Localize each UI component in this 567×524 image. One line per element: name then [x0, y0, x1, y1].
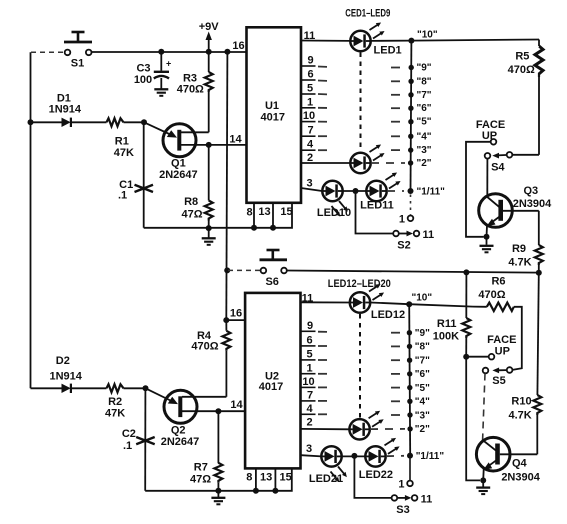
- wire +9V rail down to bottom half: [226, 52, 227, 320]
- svg-text:Q3: Q3: [523, 185, 538, 197]
- svg-text:"6": "6": [415, 369, 430, 380]
- svg-text:1: 1: [307, 96, 313, 108]
- svg-text:"1/11": "1/11": [416, 451, 445, 462]
- svg-text:LED22: LED22: [359, 469, 393, 481]
- wire LED21 to LED22: [342, 455, 365, 457]
- svg-text:10: 10: [302, 376, 314, 388]
- svg-text:9: 9: [307, 55, 313, 67]
- wire pin 11 to LED1: [301, 40, 350, 42]
- svg-text:+9V: +9V: [199, 21, 220, 33]
- ground under C3: [154, 89, 168, 96]
- pin 13 line U1: [272, 203, 274, 228]
- svg-text:S6: S6: [265, 276, 278, 288]
- svg-text:"3": "3": [415, 410, 430, 421]
- svg-text:R10: R10: [511, 395, 531, 407]
- node junction pin13 U2: [272, 488, 278, 494]
- LED22 emission arrows: [383, 436, 397, 447]
- LED LED9 (chain bottom): [350, 153, 370, 173]
- svg-text:470Ω: 470Ω: [478, 289, 505, 301]
- switch S2: [393, 231, 399, 237]
- svg-text:"10": "10": [417, 30, 438, 41]
- node junction R7 ground: [215, 488, 221, 494]
- svg-text:4.7K: 4.7K: [508, 409, 531, 421]
- IC U1 4017: [247, 27, 302, 203]
- svg-text:4.7K: 4.7K: [508, 257, 531, 269]
- wire dashed feed to S6: [228, 269, 260, 271]
- wire node 10 to R5: [411, 40, 539, 41]
- contact FACE UP bottom: [489, 354, 495, 360]
- node junction pin13: [270, 225, 276, 231]
- pushbutton S6: [260, 250, 288, 260]
- svg-text:C2: C2: [122, 428, 136, 440]
- pin 13 line U2: [274, 468, 276, 490]
- node 10 bottom: [406, 301, 412, 307]
- wire pin 3 to LED10: [301, 188, 322, 191]
- node junction C3: [158, 49, 164, 55]
- svg-text:R9: R9: [512, 243, 526, 255]
- LED LED1: [350, 31, 370, 51]
- svg-text:14: 14: [229, 134, 242, 146]
- node junction pin16 U2: [223, 317, 229, 323]
- svg-text:"10": "10": [412, 293, 433, 304]
- node column line bottom: [409, 304, 410, 455]
- svg-text:LED11: LED11: [360, 200, 394, 212]
- svg-text:.1: .1: [118, 190, 127, 202]
- svg-text:15: 15: [280, 206, 292, 218]
- LED LED12: [350, 292, 370, 312]
- LED10 emission arrows: [337, 200, 349, 214]
- column node dots and labels: [409, 65, 414, 70]
- LED LED11: [366, 181, 386, 201]
- wire pin 3 to LED21: [301, 455, 322, 456]
- svg-text:2N2647: 2N2647: [161, 436, 200, 448]
- svg-text:CED1–LED9: CED1–LED9: [345, 8, 390, 20]
- wire S4 to Q3 base: [486, 159, 488, 197]
- wire S6 to right rail: [287, 271, 539, 273]
- svg-text:470Ω: 470Ω: [508, 64, 535, 76]
- LED LED20 (chain bottom): [349, 419, 369, 439]
- LED20 emission arrows: [367, 409, 381, 420]
- wire LED1 to node 10: [371, 40, 411, 42]
- node junction LED10/11: [353, 188, 359, 194]
- wire pin 2 row to LED9: [301, 162, 350, 164]
- transistor Q1 2N2647: [144, 122, 247, 181]
- svg-text:4: 4: [307, 139, 314, 151]
- wire ground bus bottom: [145, 468, 292, 490]
- node junction R1/C1/Q1: [141, 119, 147, 125]
- svg-text:S2: S2: [397, 240, 410, 252]
- dashed wire S5 to Q4 base: [483, 374, 485, 441]
- wire dashed feed to S1: [31, 51, 64, 53]
- switch S4: [507, 152, 513, 158]
- svg-text:6: 6: [307, 69, 313, 81]
- wire S1 to U1 pin 16: [92, 51, 247, 53]
- node junction B1/R7: [215, 408, 221, 414]
- wire pin 16 U2: [226, 319, 245, 321]
- svg-text:R6: R6: [491, 275, 505, 287]
- transistor Q2 2N2647: [146, 388, 246, 448]
- wire ground bus top: [144, 203, 292, 228]
- resistor R7 47ohm: [190, 411, 222, 491]
- svg-text:+: +: [166, 59, 171, 69]
- node junction D1 left: [28, 119, 34, 125]
- svg-text:16: 16: [230, 308, 242, 320]
- svg-text:"7": "7": [415, 356, 430, 367]
- transistor Q4 2N3904: [476, 437, 540, 483]
- svg-text:"7": "7": [417, 90, 432, 101]
- dashed LED20 to node 2: [370, 428, 405, 430]
- svg-text:13: 13: [258, 206, 270, 218]
- LED LED22: [365, 446, 385, 466]
- node junction Q3 emitter: [484, 234, 490, 240]
- svg-text:R2: R2: [108, 396, 122, 408]
- resistor R2 47K: [105, 384, 145, 419]
- svg-text:100: 100: [134, 74, 152, 86]
- wire pin 11 to LED12: [301, 301, 350, 303]
- svg-text:"4": "4": [415, 397, 430, 408]
- svg-text:D2: D2: [56, 355, 70, 367]
- +9V supply arrow: [199, 21, 220, 52]
- svg-text:5: 5: [307, 83, 313, 95]
- wire FACE UP contact to Q3 emitter/ground: [466, 142, 490, 237]
- svg-text:47K: 47K: [114, 147, 134, 159]
- svg-text:10: 10: [303, 110, 315, 122]
- dashed LED chain LED12-LED20: [359, 314, 361, 418]
- svg-text:S4: S4: [491, 162, 505, 174]
- node junction R8 ground: [206, 225, 212, 231]
- svg-text:Q2: Q2: [171, 425, 186, 437]
- svg-text:6: 6: [306, 335, 312, 347]
- svg-text:7: 7: [307, 390, 313, 402]
- wire LED10 to LED11: [343, 190, 366, 192]
- svg-text:1N914: 1N914: [49, 104, 82, 116]
- svg-text:LED10: LED10: [317, 207, 351, 219]
- node junction LED21/22: [351, 453, 357, 459]
- svg-text:R1: R1: [115, 136, 129, 148]
- svg-text:R8: R8: [184, 196, 198, 208]
- resistor R1 47K: [107, 118, 145, 159]
- contact 1 of S3: [407, 481, 413, 487]
- contact 1 of S2: [408, 216, 414, 222]
- svg-text:14: 14: [230, 399, 243, 411]
- LED LED10: [322, 181, 342, 201]
- transistor Q3 2N3904: [479, 185, 552, 237]
- svg-text:LED12: LED12: [371, 309, 405, 321]
- svg-text:"1/11": "1/11": [417, 187, 446, 198]
- svg-text:8: 8: [246, 207, 252, 219]
- dashed LED chain LED1-LED9: [360, 53, 362, 152]
- contact FACE UP top: [491, 139, 497, 145]
- wire R11 junction down to Q4 ground: [466, 357, 480, 481]
- svg-text:2N3904: 2N3904: [501, 471, 540, 483]
- svg-text:4017: 4017: [261, 112, 285, 124]
- svg-text:7: 7: [307, 125, 313, 137]
- svg-text:R5: R5: [515, 51, 529, 63]
- wire pin 2 row to LED20: [301, 428, 349, 430]
- svg-text:R7: R7: [194, 462, 208, 474]
- svg-text:47Ω: 47Ω: [190, 473, 211, 485]
- svg-text:8: 8: [246, 472, 252, 484]
- capacitor C2 .1: [122, 388, 155, 491]
- svg-text:S3: S3: [396, 504, 409, 516]
- resistor R4 470: [191, 320, 230, 397]
- dashed LED9 to node 2: [371, 162, 405, 164]
- line node 1/11 to contact 1 bottom: [409, 459, 411, 481]
- node junction Q4 emitter: [480, 477, 486, 483]
- svg-text:"8": "8": [415, 342, 430, 353]
- svg-text:5: 5: [306, 349, 312, 361]
- svg-text:"5": "5": [415, 383, 430, 394]
- svg-text:Q4: Q4: [512, 458, 528, 470]
- svg-text:11: 11: [423, 229, 435, 241]
- wire LED junction down to S2: [356, 191, 394, 234]
- svg-text:16: 16: [232, 40, 244, 52]
- capacitor C1 .1: [118, 122, 153, 228]
- svg-text:1N914: 1N914: [49, 371, 82, 383]
- svg-text:47Ω: 47Ω: [181, 209, 202, 221]
- wire R11 to FACE UP contact: [466, 356, 488, 358]
- svg-text:.1: .1: [123, 440, 132, 452]
- dashed links pins to node column bottom: [318, 332, 331, 415]
- svg-text:9: 9: [307, 320, 313, 332]
- svg-text:13: 13: [260, 472, 272, 484]
- node junction R11 bottom: [463, 354, 469, 360]
- pin 8 line U2: [255, 468, 257, 490]
- resistor R5 470: [508, 40, 543, 155]
- svg-text:1: 1: [399, 214, 405, 226]
- svg-text:"9": "9": [415, 328, 430, 339]
- svg-text:"2": "2": [417, 158, 432, 169]
- resistor R8 47ohm: [181, 145, 212, 228]
- LED12 emission arrows: [368, 282, 382, 293]
- wire LED12 to node 10: [371, 303, 410, 305]
- svg-text:100K: 100K: [433, 331, 459, 343]
- svg-text:LED12–LED20: LED12–LED20: [328, 278, 391, 290]
- resistor R6 470: [473, 275, 522, 370]
- svg-text:"5": "5": [417, 117, 432, 128]
- dashed links pins to node column: [318, 67, 331, 151]
- ground under R7: [217, 491, 219, 497]
- LED21 emission arrows: [336, 465, 348, 479]
- svg-text:4: 4: [306, 403, 313, 415]
- LED LED21: [321, 446, 341, 466]
- svg-text:470Ω: 470Ω: [191, 341, 218, 353]
- svg-text:LED21: LED21: [309, 473, 343, 485]
- svg-text:1: 1: [306, 362, 312, 374]
- svg-text:"4": "4": [417, 131, 432, 142]
- column node dots and labels bottom: [407, 330, 412, 335]
- ground under R8: [208, 228, 210, 237]
- capacitor C3: [134, 52, 171, 89]
- diode D2 1N914: [31, 355, 107, 393]
- U2 output pin stubs: [301, 331, 316, 414]
- node junction R2/C2/Q2: [143, 385, 149, 391]
- dashed LED11 to node 1/11: [387, 190, 404, 192]
- node column line top: [410, 41, 413, 191]
- pin 8 line U1: [253, 203, 255, 228]
- node junction pin8 U2: [253, 488, 259, 494]
- svg-text:"2": "2": [415, 424, 430, 435]
- LED9 emission arrows: [368, 143, 382, 154]
- dashed LED22 to node 1/11 bottom: [386, 455, 404, 457]
- node 1/11 bottom: [407, 453, 413, 459]
- svg-text:"8": "8": [417, 76, 432, 87]
- node 1/11: [408, 188, 414, 194]
- U1 output pin stubs and labels: [301, 66, 316, 150]
- switch S3: [392, 495, 398, 501]
- ground under Q3: [486, 237, 488, 245]
- wire R5 to S4: [512, 154, 539, 156]
- svg-text:"3": "3": [417, 145, 432, 156]
- IC U2 4017: [245, 293, 300, 469]
- LED1 emission arrows: [368, 21, 382, 32]
- svg-text:15: 15: [279, 472, 291, 484]
- pushbutton S1: [64, 32, 92, 42]
- wire node 10 to R6: [409, 304, 473, 306]
- node junction B1/R8: [206, 142, 212, 148]
- svg-text:"9": "9": [417, 63, 432, 74]
- svg-text:2N3904: 2N3904: [513, 198, 552, 210]
- node 10: [408, 38, 414, 44]
- svg-text:2N2647: 2N2647: [159, 169, 198, 181]
- svg-text:4017: 4017: [259, 381, 283, 393]
- svg-text:UP: UP: [495, 346, 510, 358]
- dotted line node 1/11 to contact 1: [410, 195, 412, 215]
- wire LED junction down to S3: [354, 456, 391, 498]
- svg-text:Q1: Q1: [171, 158, 186, 170]
- svg-text:LED1: LED1: [374, 45, 402, 57]
- svg-text:47K: 47K: [105, 408, 125, 420]
- svg-text:U1: U1: [265, 100, 279, 112]
- ground under Q4: [482, 480, 484, 486]
- node junction +9V: [206, 49, 212, 55]
- resistor R9 4.7K: [508, 211, 542, 273]
- svg-text:3: 3: [306, 178, 312, 190]
- resistor R10 4.7K: [508, 273, 541, 455]
- svg-text:3: 3: [306, 443, 312, 455]
- node junction R9/R10: [536, 270, 542, 276]
- node junction rail S6: [224, 267, 230, 273]
- node junction pin8: [251, 225, 257, 231]
- LED11 emission arrows: [384, 171, 398, 182]
- svg-text:470Ω: 470Ω: [177, 84, 204, 96]
- diode D1 1N914: [31, 93, 107, 128]
- resistor R3: [177, 52, 213, 133]
- node junction rail top: [224, 49, 230, 55]
- svg-text:S5: S5: [492, 375, 505, 387]
- svg-text:C3: C3: [136, 63, 150, 75]
- wire left rail: [30, 52, 32, 388]
- switch S5: [507, 367, 513, 373]
- node junction R11 top: [463, 269, 469, 275]
- svg-text:2: 2: [306, 417, 312, 429]
- svg-text:FACE: FACE: [487, 334, 516, 346]
- resistor R11 100K: [433, 272, 471, 356]
- svg-text:S1: S1: [71, 58, 84, 70]
- svg-text:R11: R11: [437, 318, 457, 330]
- svg-text:1: 1: [398, 479, 404, 491]
- svg-text:"6": "6": [417, 103, 432, 114]
- svg-text:11: 11: [421, 493, 433, 505]
